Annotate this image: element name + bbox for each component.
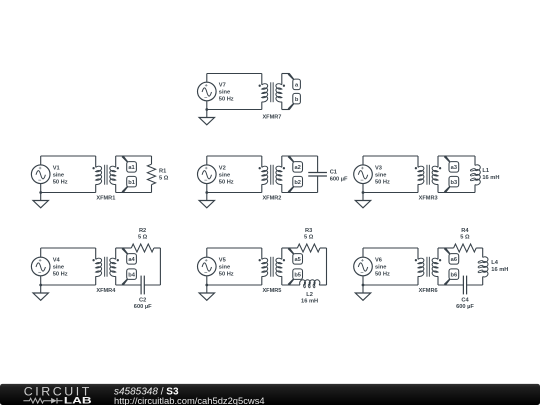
svg-text:b2: b2 <box>294 180 301 186</box>
svg-text:600 µF: 600 µF <box>134 304 152 310</box>
svg-text:b3: b3 <box>451 180 458 186</box>
svg-text:600 µF: 600 µF <box>456 304 474 310</box>
svg-text:C2: C2 <box>139 297 146 303</box>
svg-text:50 Hz: 50 Hz <box>219 97 234 103</box>
svg-text:sine: sine <box>53 265 64 271</box>
svg-text:sine: sine <box>219 172 230 178</box>
svg-text:sine: sine <box>53 172 64 178</box>
svg-text:a3: a3 <box>451 165 457 171</box>
svg-text:R3: R3 <box>305 228 312 234</box>
svg-text:LAB: LAB <box>64 396 92 405</box>
svg-text:V6: V6 <box>375 258 382 264</box>
svg-text:b1: b1 <box>128 180 135 186</box>
svg-text:16 mH: 16 mH <box>301 299 318 305</box>
svg-text:V7: V7 <box>219 83 226 89</box>
svg-text:50 Hz: 50 Hz <box>219 179 234 185</box>
svg-text:V3: V3 <box>375 165 382 171</box>
svg-text:50 Hz: 50 Hz <box>219 272 234 278</box>
svg-text:50 Hz: 50 Hz <box>375 179 390 185</box>
svg-text:XFMR4: XFMR4 <box>96 288 116 294</box>
svg-text:b: b <box>295 97 299 103</box>
svg-text:L2: L2 <box>306 292 313 298</box>
svg-text:a6: a6 <box>451 257 457 263</box>
svg-text:V2: V2 <box>219 165 226 171</box>
svg-text:http://circuitlab.com/cah5dz2q: http://circuitlab.com/cah5dz2q5cws4 <box>114 395 265 405</box>
svg-text:XFMR5: XFMR5 <box>262 288 281 294</box>
svg-text:b5: b5 <box>294 272 301 278</box>
svg-text:b4: b4 <box>128 272 135 278</box>
svg-text:50 Hz: 50 Hz <box>375 272 390 278</box>
svg-text:R2: R2 <box>139 228 146 234</box>
svg-text:sine: sine <box>375 265 386 271</box>
svg-text:R4: R4 <box>461 228 469 234</box>
svg-text:5 Ω: 5 Ω <box>138 235 148 241</box>
svg-text:C4: C4 <box>461 297 469 303</box>
svg-text:a4: a4 <box>128 257 135 263</box>
svg-text:600 µF: 600 µF <box>330 176 348 182</box>
svg-text:a2: a2 <box>294 165 300 171</box>
svg-text:50 Hz: 50 Hz <box>53 272 68 278</box>
svg-text:C1: C1 <box>330 170 337 176</box>
svg-text:sine: sine <box>219 265 230 271</box>
svg-text:a5: a5 <box>294 257 300 263</box>
svg-text:XFMR7: XFMR7 <box>262 114 281 120</box>
svg-text:XFMR3: XFMR3 <box>419 196 438 202</box>
svg-text:5 Ω: 5 Ω <box>304 235 314 241</box>
svg-text:V1: V1 <box>53 165 60 171</box>
svg-text:sine: sine <box>219 90 230 96</box>
svg-text:L4: L4 <box>491 260 498 266</box>
svg-text:sine: sine <box>375 172 386 178</box>
svg-text:V4: V4 <box>53 258 61 264</box>
svg-text:16 mH: 16 mH <box>491 267 508 273</box>
svg-text:XFMR1: XFMR1 <box>96 196 115 202</box>
svg-text:XFMR2: XFMR2 <box>262 196 281 202</box>
svg-text:b6: b6 <box>451 272 458 278</box>
svg-text:50 Hz: 50 Hz <box>53 179 68 185</box>
svg-text:a1: a1 <box>128 165 134 171</box>
svg-text:XFMR6: XFMR6 <box>419 288 438 294</box>
svg-text:L1: L1 <box>482 168 489 174</box>
svg-text:R1: R1 <box>159 168 166 174</box>
svg-text:5 Ω: 5 Ω <box>159 175 169 181</box>
svg-text:5 Ω: 5 Ω <box>460 235 470 241</box>
svg-text:V5: V5 <box>219 258 226 264</box>
svg-text:16 mH: 16 mH <box>482 175 499 181</box>
